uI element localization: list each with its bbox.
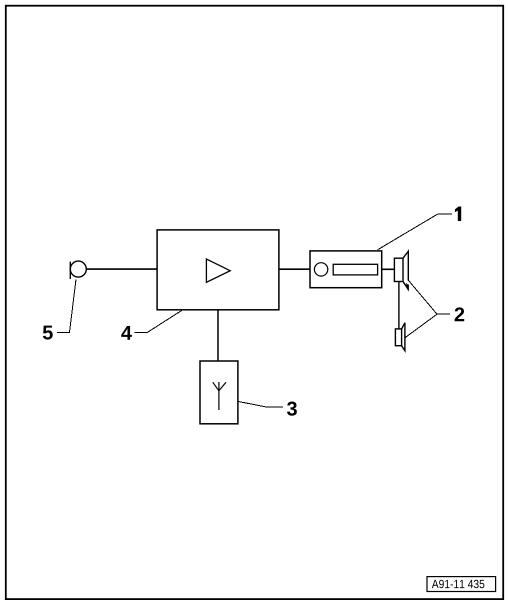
wire top speaker to bottom speaker <box>398 282 400 329</box>
label 3 <box>287 402 297 416</box>
leader line label 4 <box>134 310 182 332</box>
drawing number box <box>427 577 496 592</box>
top speaker 2 <box>394 251 408 289</box>
label 2 <box>455 307 465 321</box>
microphone 5 <box>70 261 86 279</box>
leader line label 2 <box>405 280 450 338</box>
label 5 <box>43 326 53 340</box>
leader line label 3 <box>237 401 282 407</box>
antenna symbol <box>213 382 226 410</box>
label 4 <box>121 326 132 340</box>
amplifier triangle symbol <box>206 259 230 282</box>
leader line label 1 <box>378 214 453 250</box>
antenna box 3 <box>200 361 238 424</box>
radio knob circle <box>314 263 327 276</box>
wire amplifier to radio <box>279 268 310 270</box>
drawing number text A91-11435 <box>432 580 485 589</box>
amplifier 4 box <box>157 230 279 310</box>
arrowhead on speaker leader <box>406 283 409 290</box>
bottom speaker 2 <box>395 323 405 351</box>
label 1 <box>455 207 461 222</box>
radio unit 1 box <box>310 251 382 288</box>
wire microphone to amplifier <box>87 268 157 270</box>
wire amplifier to antenna box <box>217 310 219 361</box>
wire radio to top speaker <box>382 268 395 270</box>
radio display rectangle <box>333 264 377 275</box>
leader line label 5 <box>57 279 76 332</box>
